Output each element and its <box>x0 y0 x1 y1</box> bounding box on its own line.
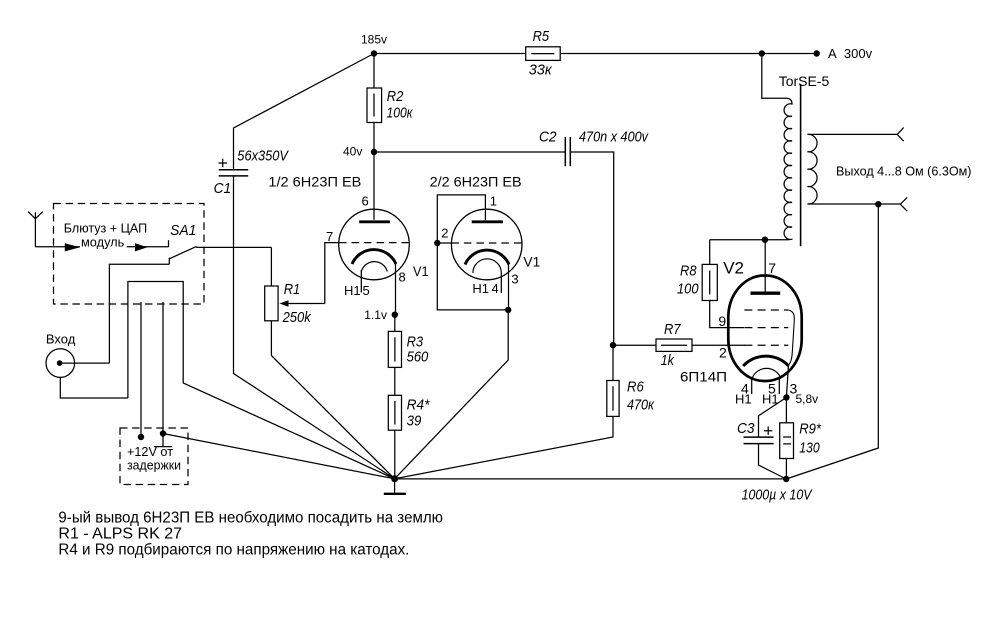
pentode V2 6П14П <box>680 240 802 407</box>
svg-text:модуль: модуль <box>81 234 125 249</box>
svg-text:V1: V1 <box>413 263 429 279</box>
node 185v <box>361 32 387 56</box>
svg-text:40v: 40v <box>343 144 362 158</box>
svg-text:R7: R7 <box>664 321 681 338</box>
wire R1 bottom to ground <box>271 356 394 479</box>
svg-text:4: 4 <box>492 281 499 296</box>
svg-text:R1 - ALPS RK 27: R1 - ALPS RK 27 <box>58 526 182 543</box>
resistor R8 <box>677 240 744 328</box>
notes text <box>58 510 443 559</box>
svg-text:R4*: R4* <box>407 396 431 413</box>
wire V1 second half to ground <box>395 310 509 479</box>
svg-text:470n x 400v: 470n x 400v <box>579 129 649 146</box>
svg-text:R8: R8 <box>680 263 697 280</box>
resistor R3 <box>388 315 429 368</box>
wire top rail 185v to A <box>374 53 817 55</box>
capacitor C2 <box>539 129 649 167</box>
wire +12V right lead <box>162 302 164 434</box>
+12V supply box <box>120 428 188 485</box>
svg-text:1: 1 <box>490 194 497 209</box>
svg-text:R4 и R9 подбираются по напряже: R4 и R9 подбираются по напряжению на кат… <box>58 542 409 559</box>
wire primary top <box>762 54 787 99</box>
svg-text:H1: H1 <box>472 281 489 296</box>
resistor R5 <box>526 28 561 78</box>
wire +12V left lead <box>140 302 142 437</box>
wire switch to R1 top <box>196 246 271 248</box>
svg-text:470к: 470к <box>627 397 655 414</box>
wire 185v node to C1 <box>234 54 375 170</box>
svg-text:H1: H1 <box>344 283 361 298</box>
module box Блютуз + ЦАП <box>54 204 205 305</box>
svg-text:SA1: SA1 <box>170 222 196 239</box>
svg-text:560: 560 <box>407 349 429 366</box>
resistor R6 <box>395 345 655 479</box>
output terminal top <box>897 128 904 142</box>
svg-text:Блютуз + ЦАП: Блютуз + ЦАП <box>64 220 147 235</box>
input jack Вход <box>46 332 110 378</box>
svg-text:Вход: Вход <box>46 332 76 347</box>
terminal A 300v <box>814 46 873 61</box>
svg-text:C1: C1 <box>214 180 232 197</box>
svg-text:задержки: задержки <box>127 458 181 473</box>
svg-text:3: 3 <box>511 271 518 286</box>
svg-text:R1: R1 <box>284 281 301 298</box>
wire C1 to ground <box>234 176 395 479</box>
svg-text:9: 9 <box>718 313 726 329</box>
svg-text:6: 6 <box>362 194 369 209</box>
wire jack shield <box>60 377 128 398</box>
svg-text:H1: H1 <box>735 392 752 407</box>
svg-text:1000µ x 10V: 1000µ x 10V <box>742 487 814 504</box>
svg-text:V1: V1 <box>523 254 540 270</box>
wire jack to switch <box>109 264 169 363</box>
svg-text:R5: R5 <box>533 28 550 45</box>
node C2/R6/R7 junction <box>610 342 616 348</box>
arrow into module <box>65 243 80 251</box>
svg-text:2/2 6Н23П ЕВ: 2/2 6Н23П ЕВ <box>430 174 522 190</box>
svg-text:A 300v: A 300v <box>828 46 873 61</box>
wire module to switch contact <box>127 246 169 248</box>
triode V1 second half 6Н23П ЕВ <box>430 174 541 314</box>
svg-text:5,8v: 5,8v <box>796 392 819 406</box>
node 5,8v cathode junction <box>783 392 818 406</box>
svg-text:39: 39 <box>407 413 422 430</box>
svg-text:R9*: R9* <box>799 421 822 438</box>
svg-text:2: 2 <box>441 226 448 241</box>
wire R3 to R4 <box>394 367 396 395</box>
node primary bottom / V2 plate <box>762 237 768 243</box>
svg-text:5: 5 <box>363 283 370 298</box>
wire bottom rail ground to C3/R9 <box>395 478 787 480</box>
transformer TorSE-5 <box>779 73 830 246</box>
node at transformer primary top tap <box>759 50 765 56</box>
svg-text:100к: 100к <box>387 105 414 122</box>
wire antenna into module <box>35 246 80 248</box>
svg-text:Выход 4...8 Ом (6.3Ом): Выход 4...8 Ом (6.3Ом) <box>836 164 972 179</box>
wire primary bottom to R8 <box>710 239 787 241</box>
svg-text:V2: V2 <box>723 259 744 278</box>
svg-text:250k: 250k <box>282 309 312 326</box>
ground <box>384 475 406 494</box>
resistor R9 <box>780 398 822 480</box>
resistor R4 <box>388 395 430 475</box>
svg-text:9-ый вывод 6Н23П ЕВ необходимо: 9-ый вывод 6Н23П ЕВ необходимо посадить … <box>58 510 443 527</box>
output terminal bottom <box>900 197 907 211</box>
svg-text:8: 8 <box>399 270 406 285</box>
svg-text:2: 2 <box>719 345 727 361</box>
svg-text:185v: 185v <box>361 32 387 46</box>
wire 40v node to C2 <box>374 151 565 153</box>
svg-text:C3: C3 <box>737 420 755 437</box>
svg-text:R6: R6 <box>627 379 644 396</box>
wire +12V to ground <box>163 434 395 479</box>
svg-text:R2: R2 <box>387 88 404 105</box>
svg-text:1.1v: 1.1v <box>364 308 387 322</box>
wire secondary return to bottom junction <box>786 204 878 479</box>
triode V1 first half 6Н23П ЕВ <box>268 152 428 315</box>
node 40v <box>343 144 377 158</box>
arrow module output <box>135 243 147 251</box>
resistor R7 <box>613 321 745 369</box>
potentiometer R1 <box>265 247 325 355</box>
wire shield bracket to ground <box>128 282 395 479</box>
node secondary bottom <box>875 201 881 207</box>
wire secondary bottom to output <box>808 203 900 205</box>
svg-text:C2: C2 <box>539 129 557 146</box>
svg-text:TorSE-5: TorSE-5 <box>779 73 830 89</box>
svg-text:6П14П: 6П14П <box>680 369 727 385</box>
capacitor C3 <box>737 398 813 504</box>
svg-text:100: 100 <box>677 281 699 298</box>
resistor R2 <box>367 54 413 153</box>
svg-text:7: 7 <box>326 229 333 244</box>
capacitor C1 <box>214 147 290 197</box>
antenna <box>28 212 43 247</box>
svg-text:7: 7 <box>768 260 776 276</box>
node 1.1v <box>364 308 398 322</box>
wire C2 to R6/R7 node <box>570 152 613 345</box>
svg-text:130: 130 <box>799 439 820 456</box>
wire secondary top to output <box>808 133 897 135</box>
svg-text:56x350V: 56x350V <box>237 147 289 164</box>
svg-text:33к: 33к <box>529 61 553 78</box>
node bottom junction C3/R9 <box>783 476 789 482</box>
svg-text:1/2 6Н23П ЕВ: 1/2 6Н23П ЕВ <box>268 174 361 190</box>
switch SA1 <box>169 222 197 264</box>
svg-text:1k: 1k <box>661 352 676 369</box>
